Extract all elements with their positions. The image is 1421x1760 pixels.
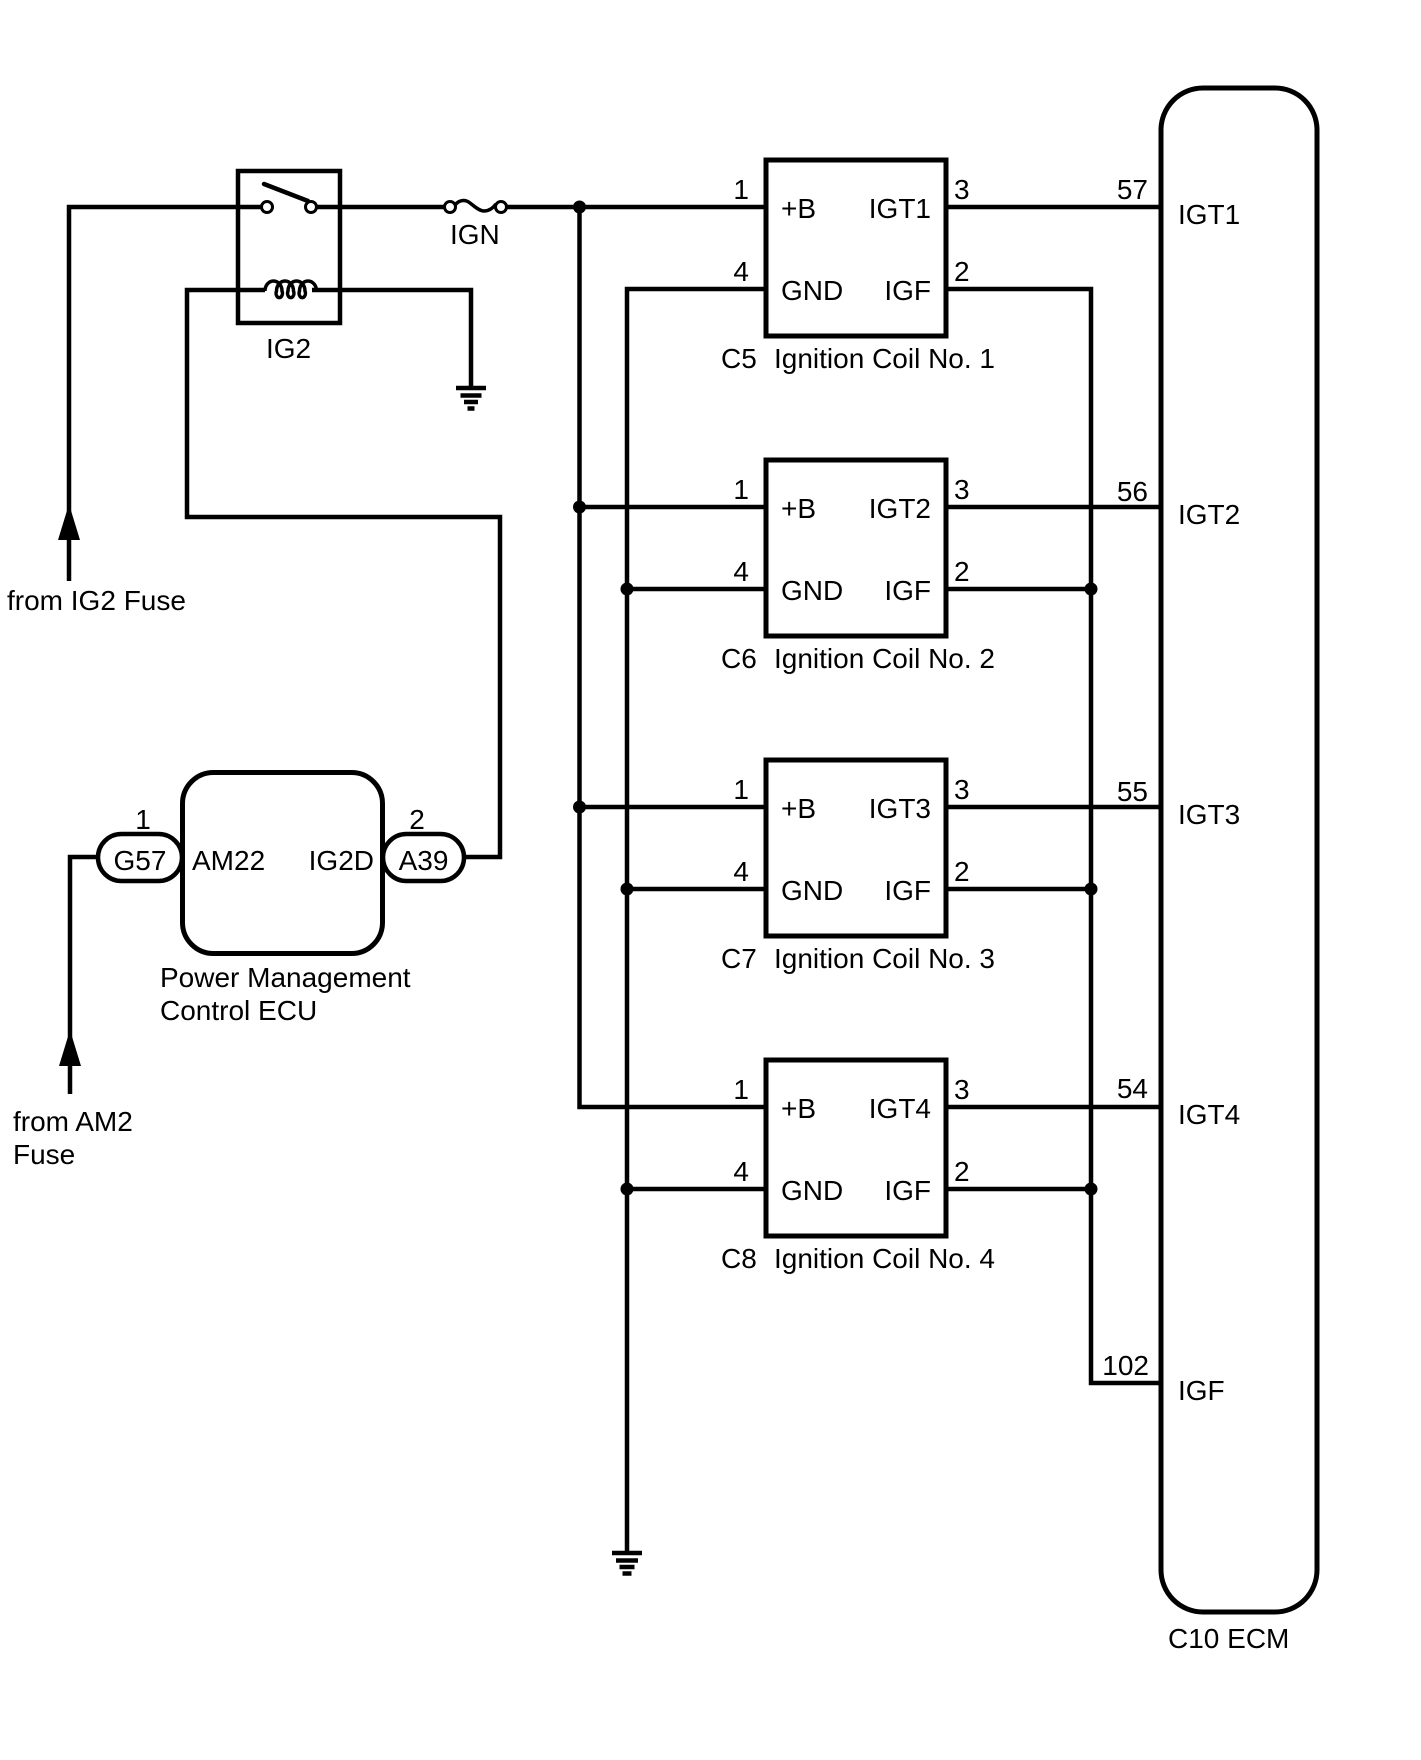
svg-text:102: 102 — [1102, 1350, 1149, 1381]
svg-text:Ignition Coil No. 2: Ignition Coil No. 2 — [774, 643, 995, 674]
svg-text:GND: GND — [781, 575, 843, 606]
junction: GND bus at C8 — [621, 1183, 634, 1196]
connector G57 — [98, 834, 182, 881]
ignition coil C7 — [766, 760, 946, 936]
svg-text:1: 1 — [733, 174, 749, 205]
svg-text:GND: GND — [781, 875, 843, 906]
svg-text:IGF: IGF — [1178, 1375, 1225, 1406]
svg-text:IG2D: IG2D — [309, 845, 374, 876]
arrowhead (from IG2 Fuse) — [58, 504, 80, 540]
label: Power Management Control ECU — [160, 962, 411, 1026]
svg-text:Ignition Coil No. 4: Ignition Coil No. 4 — [774, 1243, 995, 1274]
svg-text:C5: C5 — [721, 343, 757, 374]
junction: +B bus at top wire — [573, 201, 586, 214]
wire: C6 IGF to bus — [946, 587, 1091, 592]
svg-text:3: 3 — [954, 174, 970, 205]
svg-text:+B: +B — [781, 493, 816, 524]
svg-text:IG2: IG2 — [266, 333, 311, 364]
svg-text:IGT3: IGT3 — [869, 793, 931, 824]
label: from AM2 Fuse — [13, 1106, 133, 1170]
svg-text:Control ECU: Control ECU — [160, 995, 317, 1026]
svg-text:3: 3 — [954, 1074, 970, 1105]
svg-text:2: 2 — [409, 804, 425, 835]
svg-text:2: 2 — [954, 1156, 970, 1187]
wire: C7 GND feed — [627, 887, 766, 892]
svg-text:IGT1: IGT1 — [869, 193, 931, 224]
svg-text:GND: GND — [781, 275, 843, 306]
svg-text:55: 55 — [1117, 776, 1148, 807]
junction: GND bus at C7 — [621, 883, 634, 896]
svg-text:4: 4 — [733, 256, 749, 287]
svg-text:1: 1 — [135, 804, 151, 835]
wire: C8 GND feed — [627, 1187, 766, 1192]
label: C5 Ignition Coil No. 1 — [721, 343, 995, 374]
relay switch blade — [264, 184, 308, 201]
svg-text:2: 2 — [954, 856, 970, 887]
wire: from AM2 Fuse up to G57 — [70, 857, 98, 1094]
wire: relay switch to IGN fuse — [317, 205, 444, 210]
svg-text:1: 1 — [733, 474, 749, 505]
svg-text:3: 3 — [954, 474, 970, 505]
fuse IGN — [445, 201, 507, 213]
label: C8 Ignition Coil No. 4 — [721, 1243, 995, 1274]
svg-text:A39: A39 — [399, 845, 449, 876]
junction: IGF bus at C8 — [1085, 1183, 1098, 1196]
svg-text:C10 ECM: C10 ECM — [1168, 1623, 1289, 1654]
svg-text:IGF: IGF — [884, 875, 931, 906]
svg-text:IGT2: IGT2 — [1178, 499, 1240, 530]
svg-text:4: 4 — [733, 856, 749, 887]
wire: IGT4 to ECM pin 54 — [946, 1105, 1161, 1110]
svg-text:2: 2 — [954, 256, 970, 287]
svg-text:IGN: IGN — [450, 219, 500, 250]
junction: IGF bus at C6 — [1085, 583, 1098, 596]
wire: IGT3 to ECM pin 55 — [946, 805, 1161, 810]
junction: GND bus at C6 — [621, 583, 634, 596]
wire: IGT1 to ECM pin 57 — [946, 205, 1161, 210]
ground (coil GND bus) — [612, 1553, 642, 1574]
wire: IGN fuse to C5 +B — [507, 205, 766, 210]
ignition coil C5 — [766, 160, 946, 336]
ECM connector C10 — [1161, 88, 1317, 1612]
ground (relay coil) — [456, 388, 486, 409]
svg-text:IGT1: IGT1 — [1178, 199, 1240, 230]
svg-text:from AM2: from AM2 — [13, 1106, 133, 1137]
svg-text:IGT4: IGT4 — [869, 1093, 931, 1124]
connector A39 — [383, 834, 464, 881]
wire: relay coil right lead to ground — [312, 290, 471, 387]
svg-text:+B: +B — [781, 793, 816, 824]
svg-text:4: 4 — [733, 1156, 749, 1187]
svg-text:C8: C8 — [721, 1243, 757, 1274]
svg-text:Power Management: Power Management — [160, 962, 411, 993]
ignition coil C8 — [766, 1060, 946, 1236]
svg-text:IGF: IGF — [884, 575, 931, 606]
svg-text:Fuse: Fuse — [13, 1139, 75, 1170]
svg-text:54: 54 — [1117, 1073, 1148, 1104]
svg-text:1: 1 — [733, 1074, 749, 1105]
relay switch contact right — [306, 202, 317, 213]
wire: C8 IGF to bus — [946, 1187, 1091, 1192]
wire: IGT2 to ECM pin 56 — [946, 505, 1161, 510]
power management control ECU box — [183, 773, 383, 954]
wire: +B feed to C6 — [580, 505, 767, 510]
svg-text:Ignition Coil No. 1: Ignition Coil No. 1 — [774, 343, 995, 374]
svg-text:C6: C6 — [721, 643, 757, 674]
svg-text:+B: +B — [781, 1093, 816, 1124]
wire: relay coil left lead to A39 — [187, 290, 500, 857]
svg-text:G57: G57 — [114, 845, 167, 876]
svg-text:from IG2 Fuse: from IG2 Fuse — [7, 585, 186, 616]
svg-text:IGF: IGF — [884, 1175, 931, 1206]
wire: from IG2 Fuse up to relay switch — [69, 207, 262, 581]
svg-text:C7: C7 — [721, 943, 757, 974]
svg-text:2: 2 — [954, 556, 970, 587]
svg-text:57: 57 — [1117, 174, 1148, 205]
relay IG2 box — [238, 171, 340, 323]
label: C6 Ignition Coil No. 2 — [721, 643, 995, 674]
wire: +B bus down to C8 — [580, 207, 767, 1107]
ignition coil C6 — [766, 460, 946, 636]
wire: C7 IGF to bus — [946, 887, 1091, 892]
svg-text:+B: +B — [781, 193, 816, 224]
svg-text:3: 3 — [954, 774, 970, 805]
wire: IGF bus from C5 IGF to ECM pin 102 — [946, 289, 1161, 1383]
svg-text:IGT3: IGT3 — [1178, 799, 1240, 830]
svg-text:1: 1 — [733, 774, 749, 805]
junction: IGF bus at C7 — [1085, 883, 1098, 896]
svg-text:IGT4: IGT4 — [1178, 1099, 1240, 1130]
junction: +B bus to C7 — [573, 801, 586, 814]
relay switch contact left — [262, 202, 273, 213]
svg-text:4: 4 — [733, 556, 749, 587]
svg-text:GND: GND — [781, 1175, 843, 1206]
svg-text:56: 56 — [1117, 476, 1148, 507]
svg-text:AM22: AM22 — [192, 845, 265, 876]
svg-text:IGF: IGF — [884, 275, 931, 306]
wire: C6 GND feed — [627, 587, 766, 592]
relay coil — [265, 281, 317, 298]
wire: C5 GND to ground bus — [627, 289, 766, 1551]
svg-text:Ignition Coil No. 3: Ignition Coil No. 3 — [774, 943, 995, 974]
junction: +B bus to C6 — [573, 501, 586, 514]
arrowhead (from AM2 Fuse) — [59, 1030, 81, 1066]
label: C7 Ignition Coil No. 3 — [721, 943, 995, 974]
svg-text:IGT2: IGT2 — [869, 493, 931, 524]
wire: +B feed to C7 — [580, 805, 767, 810]
